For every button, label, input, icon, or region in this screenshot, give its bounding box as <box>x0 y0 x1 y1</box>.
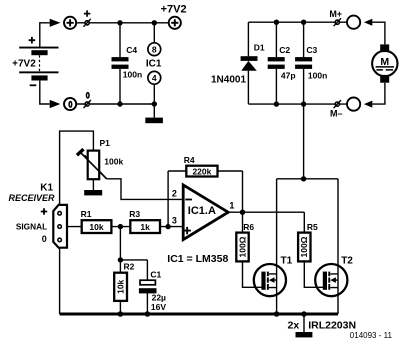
svg-text:M+: M+ <box>329 9 342 19</box>
svg-text:T1: T1 <box>281 255 293 266</box>
svg-text:P1: P1 <box>100 138 111 148</box>
svg-text:8: 8 <box>152 44 157 54</box>
svg-text:D1: D1 <box>254 43 265 53</box>
svg-text:IC1.A: IC1.A <box>188 205 216 217</box>
svg-text:10k: 10k <box>116 279 126 293</box>
svg-text:1: 1 <box>229 201 234 211</box>
svg-text:C3: C3 <box>306 45 317 55</box>
svg-text:R3: R3 <box>129 209 140 219</box>
svg-text:T2: T2 <box>341 255 353 266</box>
svg-text:220k: 220k <box>192 166 211 176</box>
svg-text:100n: 100n <box>308 70 327 80</box>
svg-text:16V: 16V <box>151 302 166 312</box>
svg-text:M: M <box>380 56 389 68</box>
svg-text:R2: R2 <box>124 262 135 272</box>
svg-text:47p: 47p <box>281 70 296 80</box>
svg-text:+7V2: +7V2 <box>161 4 187 16</box>
svg-text:SIGNAL: SIGNAL <box>16 221 47 231</box>
svg-text:R5: R5 <box>307 222 318 232</box>
svg-text:100n: 100n <box>123 70 142 80</box>
svg-text:4: 4 <box>152 73 157 83</box>
svg-text:100k: 100k <box>104 156 123 166</box>
svg-text:+7V2: +7V2 <box>12 59 36 70</box>
svg-text:R1: R1 <box>81 209 92 219</box>
svg-text:IC1: IC1 <box>146 58 162 69</box>
svg-text:IC1 = LM358: IC1 = LM358 <box>167 253 228 265</box>
svg-text:100Ω: 100Ω <box>299 236 309 257</box>
svg-text:2: 2 <box>172 188 177 198</box>
svg-text:0: 0 <box>42 234 47 244</box>
svg-text:2x: 2x <box>288 319 300 331</box>
svg-text:1N4001: 1N4001 <box>211 74 246 85</box>
svg-text:C4: C4 <box>126 45 137 55</box>
svg-text:1k: 1k <box>140 222 150 232</box>
svg-text:C2: C2 <box>279 45 290 55</box>
svg-text:M–: M– <box>330 108 343 118</box>
svg-text:22µ: 22µ <box>152 293 166 303</box>
svg-text:014093 - 11: 014093 - 11 <box>350 331 393 340</box>
svg-text:R4: R4 <box>184 155 195 165</box>
svg-text:3: 3 <box>172 216 177 226</box>
svg-text:R6: R6 <box>243 222 254 232</box>
svg-text:10k: 10k <box>89 222 103 232</box>
svg-text:100Ω: 100Ω <box>237 236 247 257</box>
svg-text:C1: C1 <box>150 270 161 280</box>
svg-text:IRL2203N: IRL2203N <box>308 319 356 331</box>
svg-text:RECEIVER: RECEIVER <box>8 193 55 203</box>
